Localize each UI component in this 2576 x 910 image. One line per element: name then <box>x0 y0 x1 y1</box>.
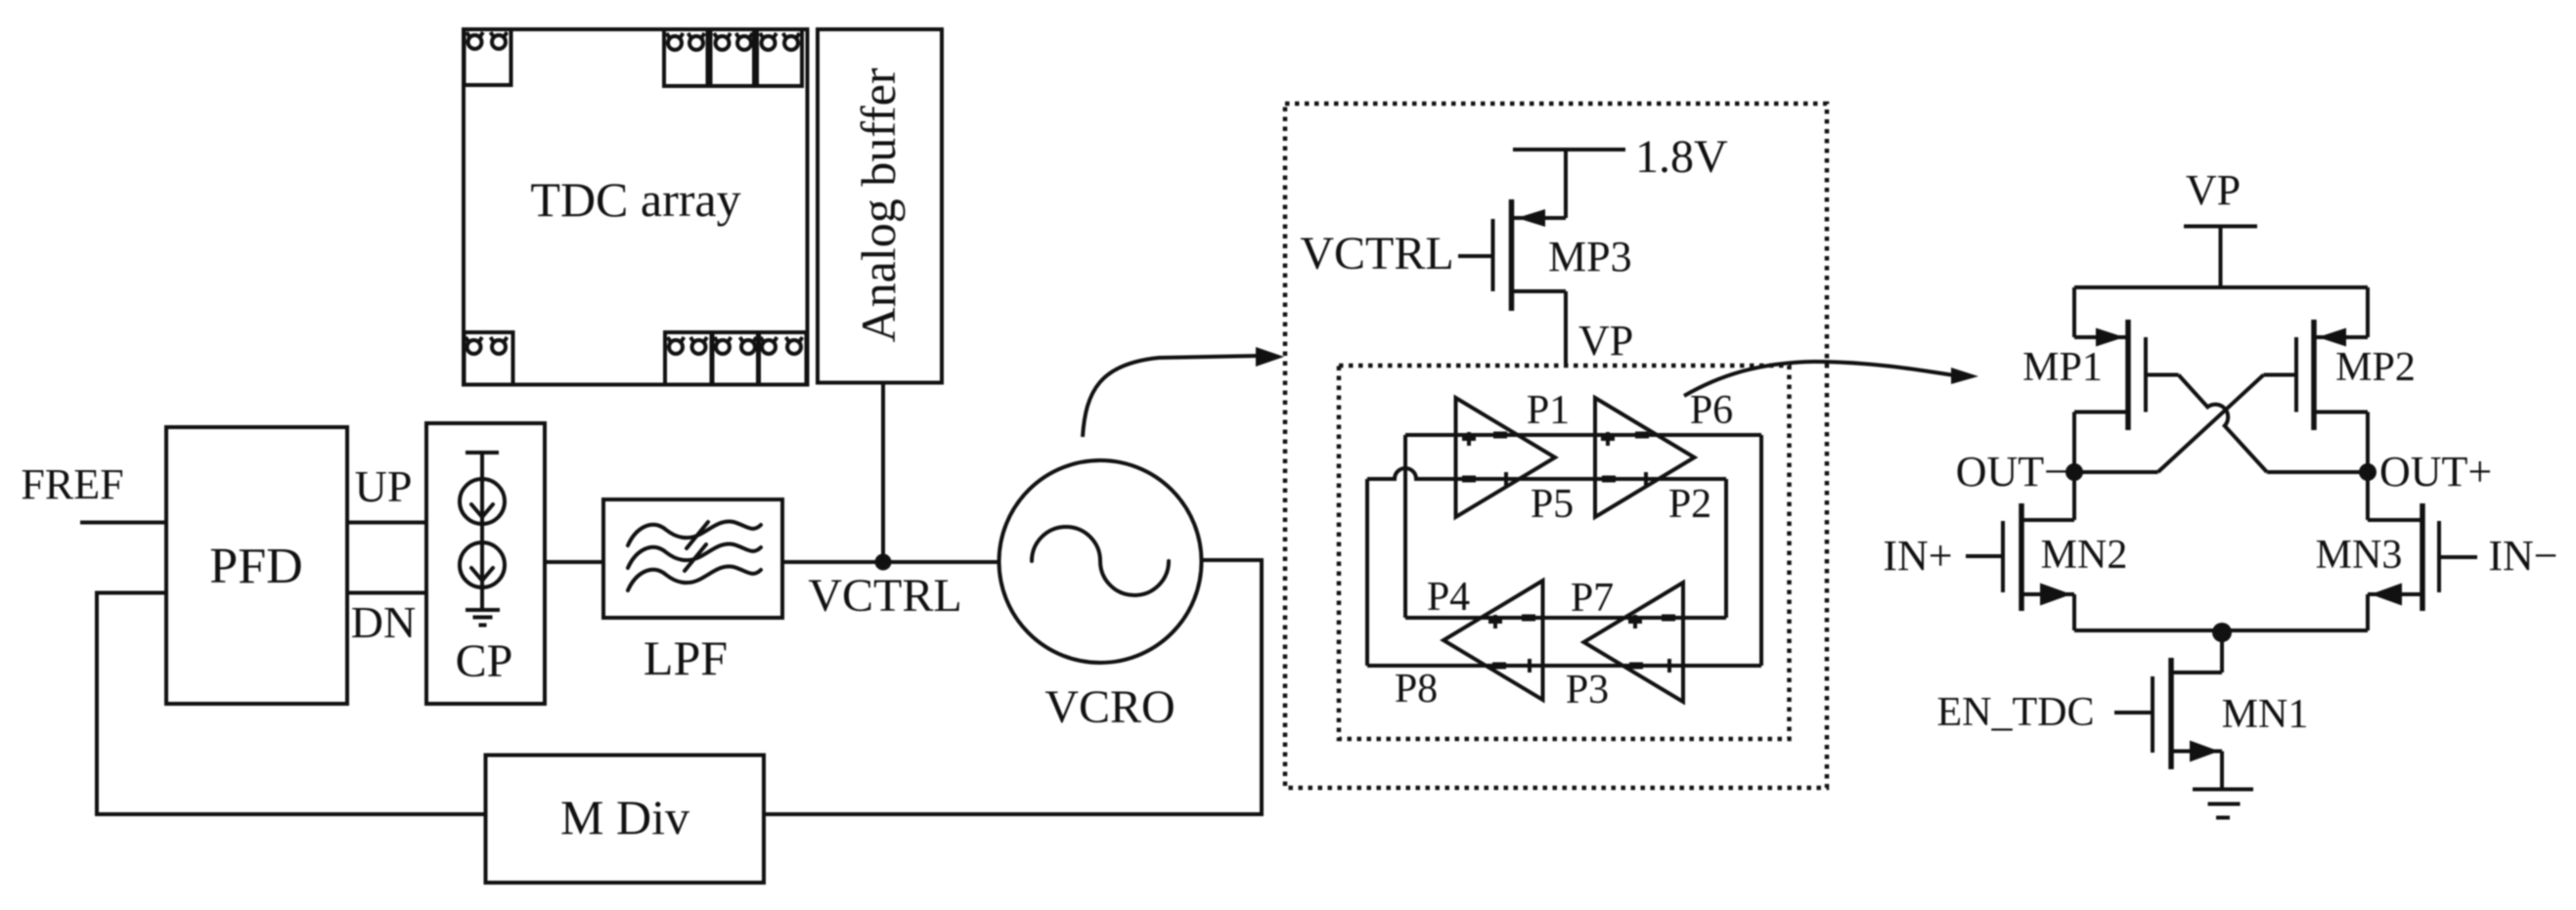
LPF wave 2 <box>628 543 761 568</box>
svg-text:MN3: MN3 <box>2316 533 2403 578</box>
supply VP right <box>2184 166 2257 287</box>
svg-text:IN−: IN− <box>2488 532 2557 580</box>
CP bias wire <box>480 453 484 610</box>
svg-text:EN_TDC: EN_TDC <box>1937 690 2095 735</box>
dashed box bias generator <box>1285 104 1827 788</box>
wire ring left inner <box>1403 435 1407 618</box>
svg-text:Analog buffer: Analog buffer <box>851 67 906 342</box>
transistor MP2 <box>2264 287 2369 472</box>
wire VCTRL to Analog buffer <box>881 383 885 563</box>
LPF wave 3 <box>628 566 761 590</box>
svg-text:P3: P3 <box>1566 668 1609 713</box>
svg-text:CP: CP <box>456 635 513 687</box>
dashed box ring oscillator <box>1339 366 1790 739</box>
svg-text:P5: P5 <box>1531 482 1574 527</box>
buffer P4/P8 <box>1443 581 1543 700</box>
svg-text:VP: VP <box>1578 317 1633 365</box>
svg-text:VCTRL: VCTRL <box>808 570 961 622</box>
svg-text:P7: P7 <box>1571 576 1614 621</box>
svg-text:PFD: PFD <box>209 539 302 594</box>
svg-text:VCRO: VCRO <box>1044 681 1175 733</box>
svg-text:TDC array: TDC array <box>530 172 740 227</box>
arrow VCRO to bias schematic <box>1083 347 1284 437</box>
wire top rail <box>2074 285 2368 289</box>
svg-text:MN1: MN1 <box>2222 692 2309 737</box>
svg-text:OUT−: OUT− <box>1956 448 2068 496</box>
transistor MP1 <box>2074 287 2179 472</box>
buffer P1/P5 <box>1456 398 1556 517</box>
svg-text:VP: VP <box>2186 166 2241 214</box>
svg-text:FREF: FREF <box>21 460 123 508</box>
buffer P6/P2 <box>1595 398 1695 517</box>
transistor MN1 <box>2114 631 2222 790</box>
svg-text:P2: P2 <box>1668 482 1711 527</box>
wire FREF input <box>80 521 166 525</box>
node VCTRL junction dot <box>875 554 892 571</box>
TDC cells bottom-right <box>665 332 807 385</box>
current source I2 <box>460 542 505 587</box>
svg-text:MP1: MP1 <box>2022 345 2103 390</box>
svg-text:MP2: MP2 <box>2335 345 2416 390</box>
wire VCRO output to divider <box>764 560 1262 814</box>
supply 1.8V <box>1513 131 1728 183</box>
svg-text:P8: P8 <box>1395 667 1438 712</box>
svg-text:DN: DN <box>351 597 416 647</box>
ground CP <box>466 610 500 626</box>
wire ring top plus <box>1405 433 1761 437</box>
transistor MP3 <box>1458 150 1566 366</box>
TDC cell bottom-left <box>465 332 513 385</box>
node OUT+ <box>2267 448 2492 496</box>
wire tail rail <box>2074 628 2368 632</box>
LPF wave 1 <box>628 521 761 545</box>
svg-text:MN2: MN2 <box>2041 533 2128 578</box>
block M Div <box>486 756 765 884</box>
wire ring left outer <box>1365 479 1369 666</box>
svg-text:UP: UP <box>355 461 413 511</box>
transistor MN2 <box>1966 472 2074 630</box>
block Analog buffer <box>818 29 942 383</box>
wire DN <box>347 591 426 595</box>
TDC cells top-right <box>664 29 802 86</box>
svg-text:MP3: MP3 <box>1548 233 1632 281</box>
oscillator VCRO <box>999 460 1202 733</box>
block CP charge pump <box>426 423 545 704</box>
wire ring bottom plus <box>1405 616 1726 620</box>
wire ring right inner <box>1724 479 1728 618</box>
transistor MN3 <box>2368 472 2477 630</box>
LPF slash 2 <box>685 544 706 571</box>
svg-text:P4: P4 <box>1427 575 1470 620</box>
wire cross-couple MP2 gate to OUT- <box>2158 375 2264 473</box>
svg-text:P1: P1 <box>1527 388 1570 433</box>
svg-text:OUT+: OUT+ <box>2379 448 2492 496</box>
svg-text:IN+: IN+ <box>1883 532 1952 580</box>
wire UP <box>347 521 426 525</box>
TDC cell top-left <box>465 29 511 85</box>
wire feedback to PFD <box>97 593 486 815</box>
wire ring bottom minus <box>1367 664 1761 668</box>
wire cross-couple MP1 gate to OUT+ with hop <box>2179 375 2268 473</box>
wire CP to LPF <box>545 560 603 564</box>
svg-text:LPF: LPF <box>644 630 728 685</box>
node OUT- <box>1956 448 2158 496</box>
wire LPF to VCRO <box>782 560 999 564</box>
svg-text:P6: P6 <box>1690 388 1733 433</box>
current source I1 <box>460 479 505 524</box>
svg-text:M Div: M Div <box>560 790 689 845</box>
svg-text:VCTRL: VCTRL <box>1300 228 1453 280</box>
block PFD <box>166 427 347 704</box>
node tail junction <box>2212 623 2232 642</box>
ground MN1 <box>2193 790 2253 818</box>
arrow ring to delay cell schematic <box>1684 362 1978 396</box>
block TDC array <box>464 29 808 385</box>
buffer P7/P3 <box>1584 583 1684 702</box>
block LPF <box>603 499 782 685</box>
svg-text:1.8V: 1.8V <box>1635 131 1728 183</box>
wire ring top minus with hop <box>1367 468 1726 479</box>
CP supply bar <box>466 451 499 455</box>
LPF slash 1 <box>687 522 708 548</box>
wire ring right outer <box>1759 435 1763 666</box>
